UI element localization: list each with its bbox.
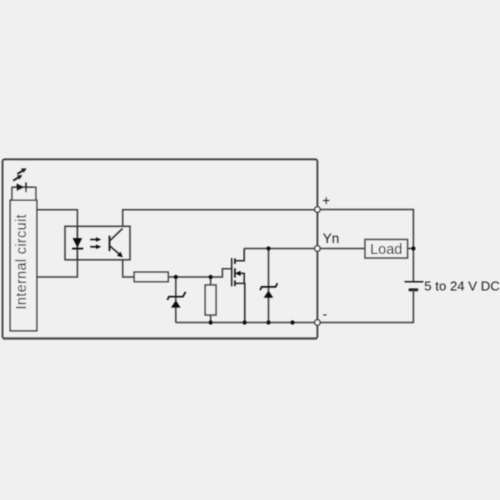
LED indicator box	[12, 187, 36, 200]
LED indicator diode	[13, 182, 34, 192]
opto LED	[72, 226, 83, 259]
external Yn wire to Load	[320, 248, 365, 250]
wire: R1 to gate	[168, 269, 232, 277]
MOSFET Q1	[232, 249, 245, 323]
svg-text:Internal circuit: Internal circuit	[14, 214, 30, 309]
opto light arrow upper	[90, 237, 101, 242]
LED light arrow 2	[17, 168, 26, 174]
resistor R2 (vertical)	[205, 277, 216, 323]
wire Load to battery node	[408, 248, 414, 250]
enclosure outline (module boundary)	[3, 159, 318, 338]
zener diode D1	[167, 277, 185, 323]
svg-text:5 to 24 V DC: 5 to 24 V DC	[424, 279, 500, 294]
internal circuit box	[10, 200, 37, 331]
wire: internal circuit to opto LED anode	[37, 210, 78, 227]
svg-text:-: -	[323, 306, 328, 321]
opto phototransistor	[110, 229, 123, 258]
optocoupler U1 box	[65, 226, 130, 259]
svg-text:+: +	[322, 193, 330, 208]
wire: collector to + terminal	[123, 210, 315, 227]
wire: emitter down to gate line	[123, 260, 135, 277]
opto light arrow lower	[90, 245, 101, 250]
junction dots	[174, 275, 178, 279]
terminal -	[315, 320, 320, 325]
battery B1	[405, 282, 424, 290]
junction dot at load/battery	[411, 246, 415, 250]
Load box	[365, 240, 408, 259]
internal bottom rail to - terminal	[176, 322, 315, 324]
terminal +	[315, 207, 320, 212]
resistor R1 (horizontal)	[134, 272, 168, 282]
LED light arrow 1	[13, 175, 22, 181]
svg-text:Yn: Yn	[323, 231, 340, 246]
wire: drain to Yn terminal	[244, 248, 315, 250]
external + wire	[320, 210, 413, 282]
terminal Yn	[315, 246, 320, 251]
wire: opto LED cathode return to internal circuit	[37, 260, 78, 277]
svg-text:Load: Load	[370, 242, 402, 258]
zener diode D2	[260, 249, 277, 323]
enclosure bottom edge (thicker)	[3, 337, 317, 339]
external - wire	[320, 290, 413, 323]
